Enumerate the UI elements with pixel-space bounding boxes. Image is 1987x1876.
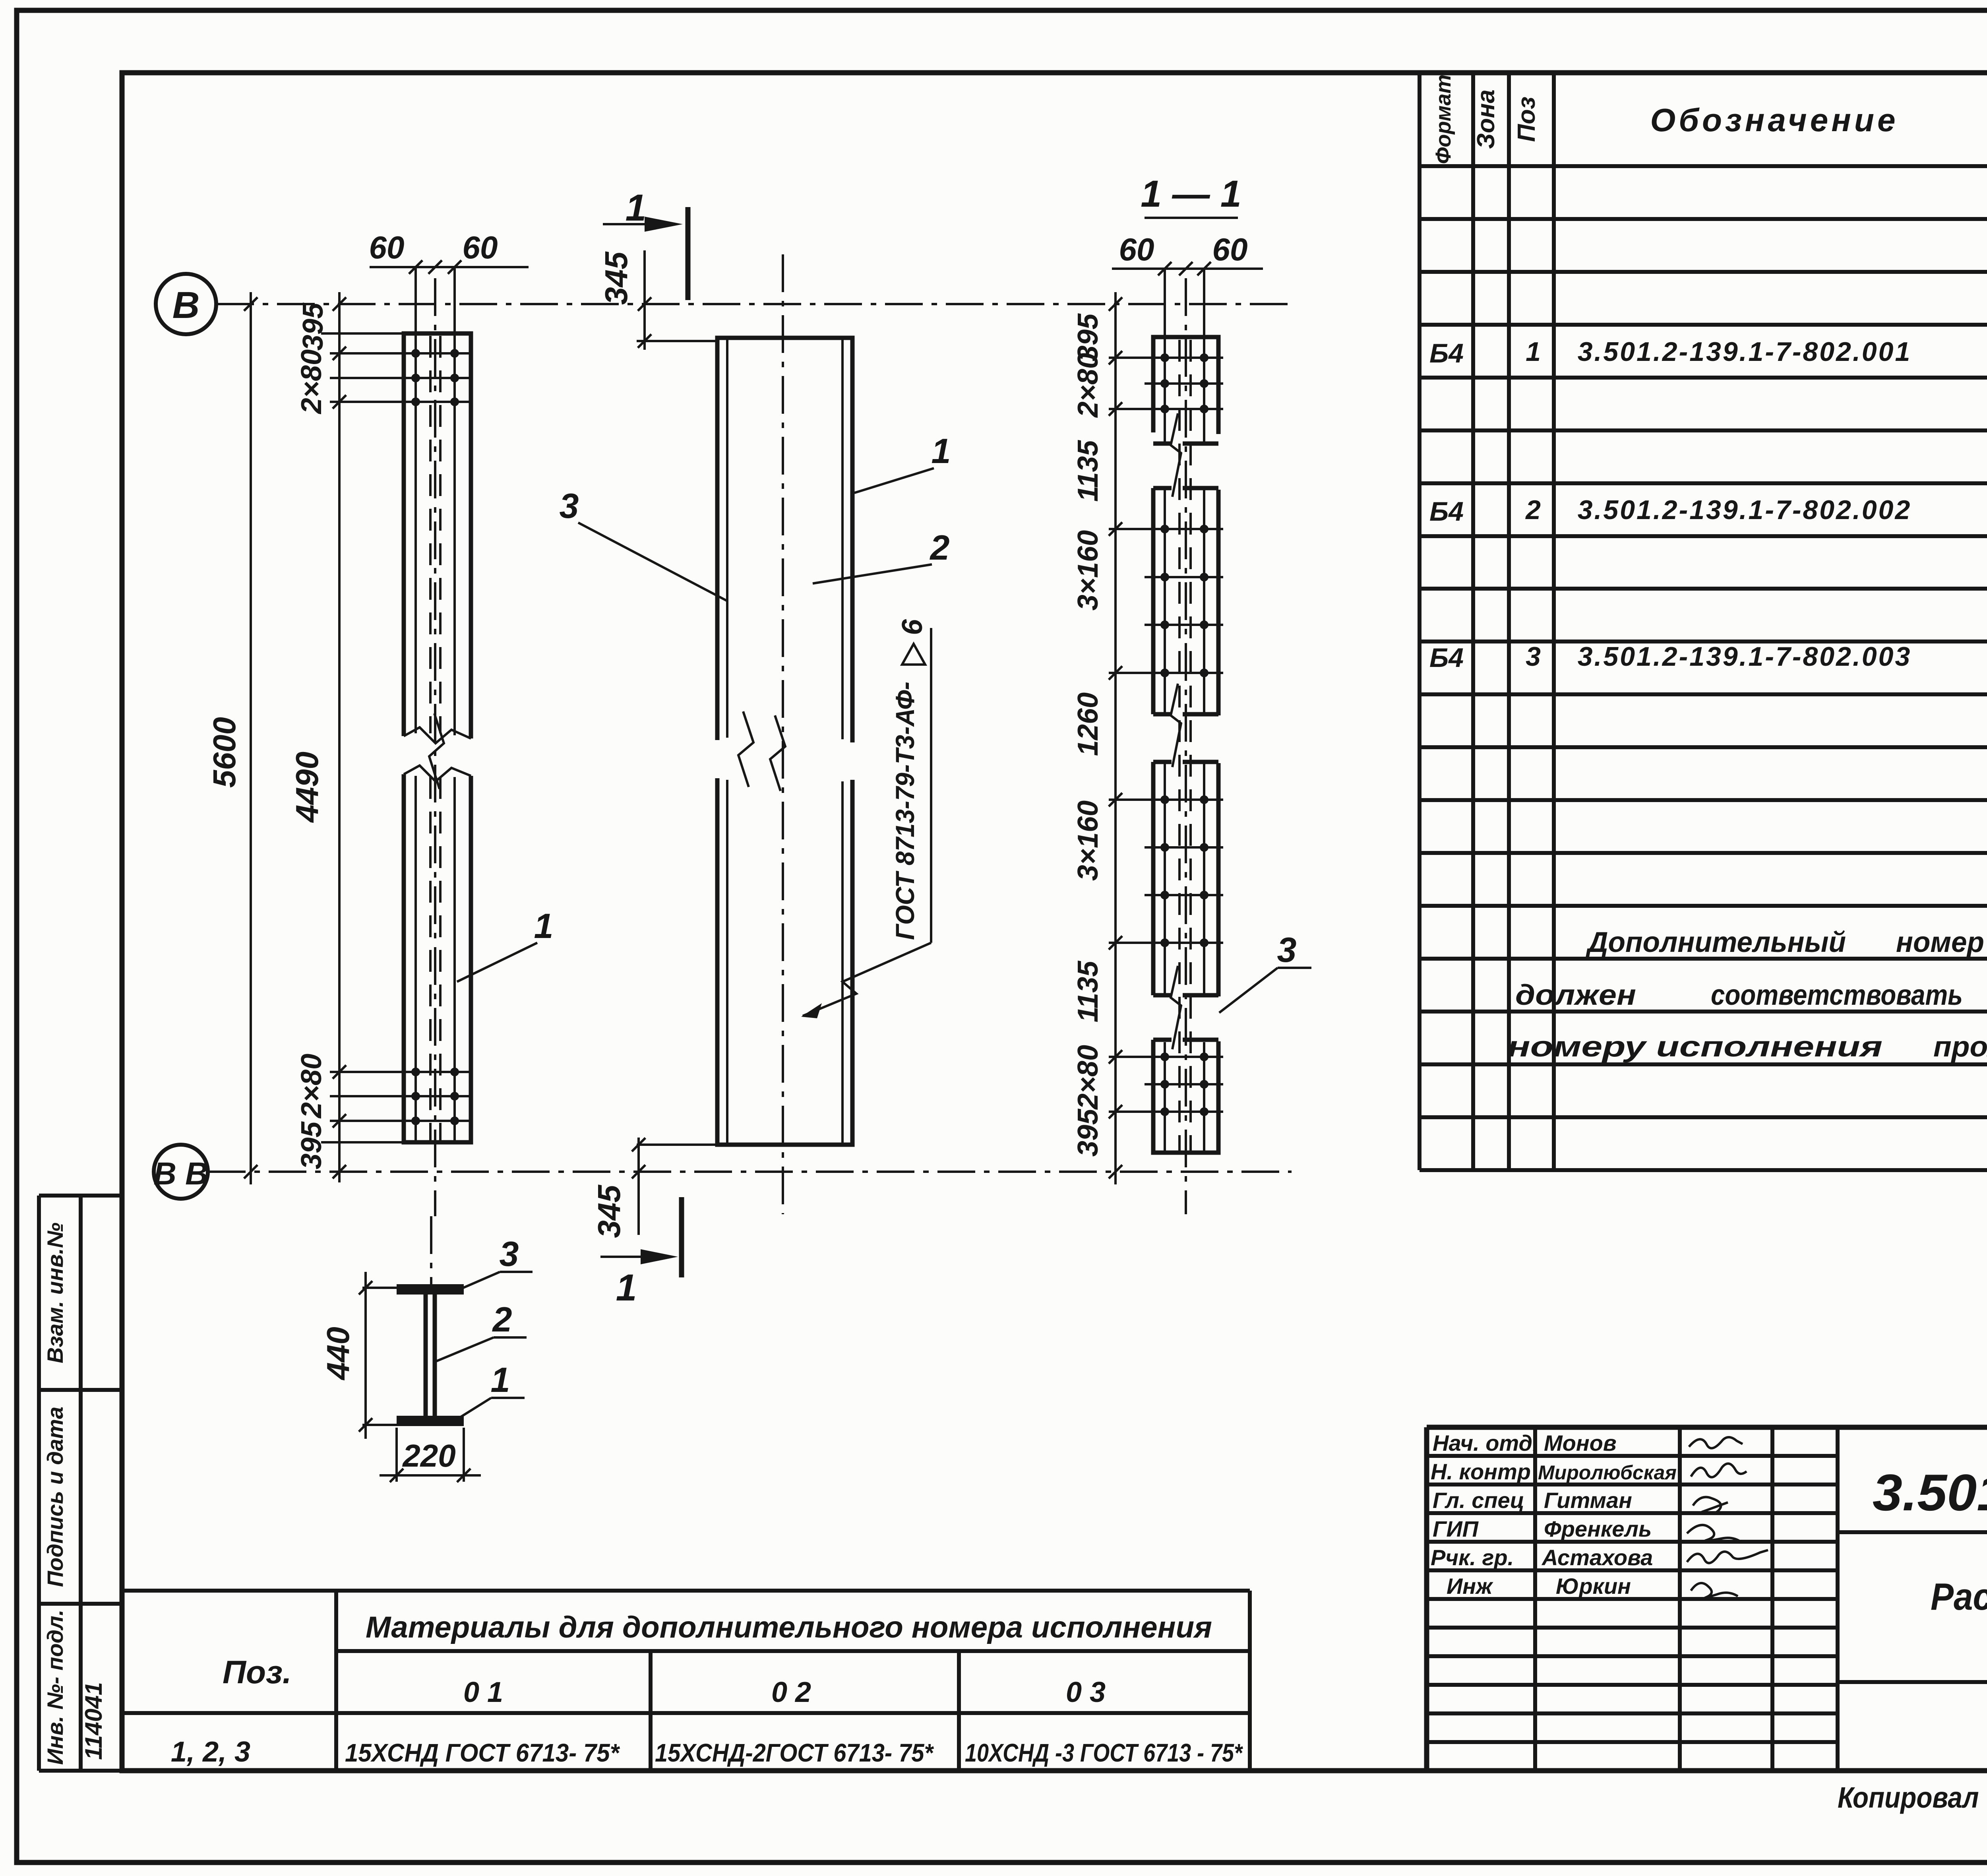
svg-text:395: 395 — [1072, 1109, 1104, 1157]
svg-text:1135: 1135 — [1072, 440, 1104, 502]
spec row: pos 3 — [1429, 639, 1987, 721]
svg-text:3: 3 — [560, 486, 579, 525]
svg-text:Копировал Чесалкина: Копировал Чесалкина — [1838, 1781, 1987, 1814]
middle view member outline upper part — [717, 338, 852, 742]
svg-text:220: 220 — [402, 1438, 455, 1473]
svg-text:Рчк. гр.: Рчк. гр. — [1431, 1545, 1514, 1570]
svg-text:4490: 4490 — [289, 752, 325, 823]
svg-text:должен: должен — [1515, 979, 1636, 1011]
I-beam cross section centerline — [430, 1216, 432, 1286]
svg-text:Астахова: Астахова — [1541, 1545, 1653, 1570]
dimension chain 395 / 2x80 / 4490 / 2x80 / 395 — [289, 292, 346, 1182]
svg-text:60: 60 — [1212, 232, 1248, 267]
svg-text:пролетного: пролетного — [1933, 1031, 1987, 1063]
svg-text:Инв. №- подл.: Инв. №- подл. — [43, 1610, 68, 1765]
leader 1 on left view — [457, 906, 553, 982]
leader 2 on I-beam — [433, 1300, 527, 1362]
specification table grid — [1420, 73, 1987, 1170]
svg-text:2×80: 2×80 — [1072, 1045, 1104, 1110]
svg-text:1135: 1135 — [1072, 961, 1104, 1023]
bolts section seg2 — [1160, 525, 1208, 677]
section extension lines at bolt rows — [1109, 358, 1223, 1112]
svg-text:10ХСНД -3 ГОСТ 6713 - 75*: 10ХСНД -3 ГОСТ 6713 - 75* — [965, 1738, 1243, 1767]
dimension 220 — [380, 1428, 481, 1482]
svg-text:395: 395 — [296, 1121, 327, 1169]
hidden web lines section — [1178, 340, 1181, 1151]
svg-text:Инж: Инж — [1447, 1574, 1493, 1599]
section plate segment 3 — [1153, 762, 1218, 1049]
svg-text:В В: В В — [153, 1156, 208, 1191]
leader 1 on I-beam — [456, 1360, 525, 1420]
left view member outline (lower part) — [404, 774, 471, 1142]
svg-text:3: 3 — [500, 1234, 519, 1273]
svg-text:60: 60 — [369, 230, 405, 265]
extension lines left view — [321, 333, 471, 1142]
svg-text:Миролюбская: Миролюбская — [1538, 1461, 1677, 1484]
bolts left view top group — [411, 349, 459, 406]
left side stamp column — [39, 1196, 122, 1771]
svg-text:ГОСТ 8713-79-Т3-АФ-: ГОСТ 8713-79-Т3-АФ- — [890, 682, 920, 940]
spec row: pos 2 — [1429, 492, 1987, 579]
bolts section seg3 — [1160, 795, 1208, 947]
svg-text:Поз.: Поз. — [223, 1654, 292, 1690]
svg-text:Гитман: Гитман — [1544, 1488, 1632, 1513]
title block outline — [1427, 1427, 1987, 1771]
leader 3 middle view — [560, 486, 727, 601]
svg-text:60: 60 — [463, 230, 498, 265]
svg-text:В: В — [172, 284, 200, 326]
svg-text:1: 1 — [932, 431, 951, 471]
spec row: pos 1 — [1429, 335, 1987, 421]
signature table texts — [1431, 1430, 1677, 1599]
svg-text:60: 60 — [1119, 232, 1154, 267]
svg-text:1: 1 — [616, 1267, 637, 1309]
svg-text:Нач. отд.: Нач. отд. — [1433, 1430, 1539, 1455]
I-beam top flange (detail 3) — [397, 1284, 464, 1295]
vertical centerline middle view — [782, 254, 784, 1214]
leader 1 middle view — [854, 431, 951, 493]
bolts left view bottom group — [411, 1068, 459, 1125]
svg-text:Б4: Б4 — [1429, 643, 1464, 673]
svg-text:Б4: Б4 — [1429, 496, 1464, 527]
svg-text:114041: 114041 — [80, 1682, 107, 1760]
svg-text:3: 3 — [1277, 930, 1297, 969]
svg-text:0 2: 0 2 — [771, 1676, 811, 1708]
section plate segment 1 — [1153, 337, 1218, 497]
svg-text:0 3: 0 3 — [1066, 1676, 1106, 1708]
weld designation GOST 8713-79 rotated — [801, 619, 931, 1018]
section plate segment 2 — [1153, 488, 1218, 767]
svg-text:2: 2 — [1525, 495, 1541, 525]
bolts section seg4 — [1160, 1052, 1208, 1116]
svg-text:Дополнительный: Дополнительный — [1585, 926, 1846, 958]
copied by line — [1838, 1780, 1987, 1814]
svg-text:3.501.2-139.1-7-802.002: 3.501.2-139.1-7-802.002 — [1578, 495, 1912, 525]
svg-text:Подпись и дата: Подпись и дата — [43, 1407, 68, 1587]
I-beam bottom flange (detail 1) — [397, 1416, 464, 1426]
dimension 440 — [320, 1272, 397, 1439]
svg-text:3: 3 — [1526, 641, 1541, 672]
svg-text:15ХСНД ГОСТ 6713- 75*: 15ХСНД ГОСТ 6713- 75* — [345, 1738, 620, 1767]
dimension 345 bottom — [591, 1138, 645, 1238]
title block right grid — [1838, 1532, 1987, 1771]
section dimension chain — [1072, 292, 1122, 1184]
svg-text:2: 2 — [492, 1300, 512, 1339]
svg-text:0 1: 0 1 — [463, 1676, 503, 1708]
svg-text:Взам. инв.№: Взам. инв.№ — [43, 1223, 68, 1363]
I-beam web (detail 2) — [426, 1295, 435, 1417]
svg-text:395: 395 — [297, 302, 329, 351]
svg-text:Зона: Зона — [1472, 89, 1500, 149]
svg-text:Гл. спец: Гл. спец — [1433, 1488, 1524, 1513]
svg-text:3×160: 3×160 — [1072, 800, 1104, 881]
svg-text:2×80: 2×80 — [1072, 353, 1104, 418]
svg-text:6: 6 — [897, 619, 928, 635]
dimension 5600 vertical line — [207, 292, 258, 1184]
svg-text:соответствовать: соответствовать — [1711, 979, 1963, 1011]
leader 3 on I-beam — [458, 1234, 533, 1290]
section cut mark 1 bottom — [600, 1197, 682, 1309]
svg-text:Поз: Поз — [1513, 97, 1540, 142]
vertical centerline section — [1185, 278, 1187, 1214]
svg-text:номеру исполнения: номеру исполнения — [1507, 1031, 1882, 1063]
svg-text:Юркин: Юркин — [1556, 1574, 1631, 1599]
svg-text:5600: 5600 — [207, 717, 242, 788]
spec table headers — [1431, 74, 1987, 164]
svg-text:3×160: 3×160 — [1072, 530, 1104, 610]
bottom axis centerline — [208, 1171, 1292, 1173]
svg-text:2×80: 2×80 — [296, 349, 327, 415]
svg-text:Распорка РС31: Распорка РС31 — [1931, 1576, 1987, 1618]
svg-text:3.501.2-139.1-7-802.000: 3.501.2-139.1-7-802.000 — [1873, 1463, 1987, 1521]
datum circle BB — [153, 1145, 208, 1199]
svg-text:345: 345 — [591, 1184, 627, 1238]
signature scribbles — [1687, 1437, 1768, 1598]
break lines left view — [404, 713, 471, 789]
top axis centerline — [216, 303, 1292, 305]
svg-text:Френкель: Френкель — [1544, 1516, 1652, 1541]
break lines middle view — [738, 711, 785, 791]
svg-text:1: 1 — [491, 1360, 510, 1399]
svg-text:440: 440 — [320, 1327, 356, 1380]
materials table grid — [122, 1591, 1250, 1771]
section title 1-1 — [1141, 173, 1241, 218]
vertical centerline left view — [434, 278, 436, 1216]
svg-text:1260: 1260 — [1072, 692, 1104, 756]
svg-text:1: 1 — [534, 906, 554, 946]
middle view member outline lower part — [717, 778, 852, 1145]
bolts section seg1 — [1160, 353, 1208, 413]
left view member outline (upper part) — [404, 333, 471, 738]
dimension 60 60 above section — [1112, 232, 1263, 340]
svg-text:1 — 1: 1 — 1 — [1141, 173, 1241, 215]
svg-text:1: 1 — [626, 187, 647, 229]
title block signature grid — [1427, 1427, 1838, 1771]
svg-text:Формат: Формат — [1431, 74, 1455, 164]
svg-text:345: 345 — [598, 251, 634, 305]
datum circle B — [156, 274, 216, 334]
svg-text:1: 1 — [1526, 337, 1541, 367]
dimension 60 60 above left view — [369, 230, 529, 336]
section plate segment 4 — [1153, 1040, 1218, 1153]
leader 2 middle view — [813, 528, 950, 583]
svg-text:Б4: Б4 — [1429, 338, 1464, 368]
svg-text:2×80: 2×80 — [296, 1054, 327, 1119]
svg-text:Обозначение: Обозначение — [1650, 102, 1898, 138]
svg-text:ГИП: ГИП — [1433, 1516, 1479, 1541]
svg-text:2: 2 — [930, 528, 950, 567]
hidden web lines left view — [429, 336, 432, 733]
materials table texts — [171, 1610, 1243, 1768]
svg-text:Монов: Монов — [1544, 1430, 1617, 1455]
middle view extension lines — [637, 340, 717, 342]
svg-text:3.501.2-139.1-7-802.001: 3.501.2-139.1-7-802.001 — [1578, 337, 1912, 367]
svg-text:Материалы для дополнитель: Материалы для дополнительного номера исп… — [366, 1610, 1212, 1644]
svg-text:номер: номер — [1896, 926, 1984, 958]
section cut mark 1 top — [603, 187, 688, 300]
svg-text:3.501.2-139.1-7-802.003: 3.501.2-139.1-7-802.003 — [1578, 641, 1912, 672]
dimension 345 top — [598, 250, 651, 350]
svg-text:1, 2, 3: 1, 2, 3 — [171, 1736, 250, 1768]
svg-text:15ХСНД-2ГОСТ 6713- 75*: 15ХСНД-2ГОСТ 6713- 75* — [655, 1738, 934, 1767]
svg-text:Н. контр: Н. контр — [1431, 1459, 1531, 1484]
leader 3 section view — [1219, 930, 1311, 1013]
